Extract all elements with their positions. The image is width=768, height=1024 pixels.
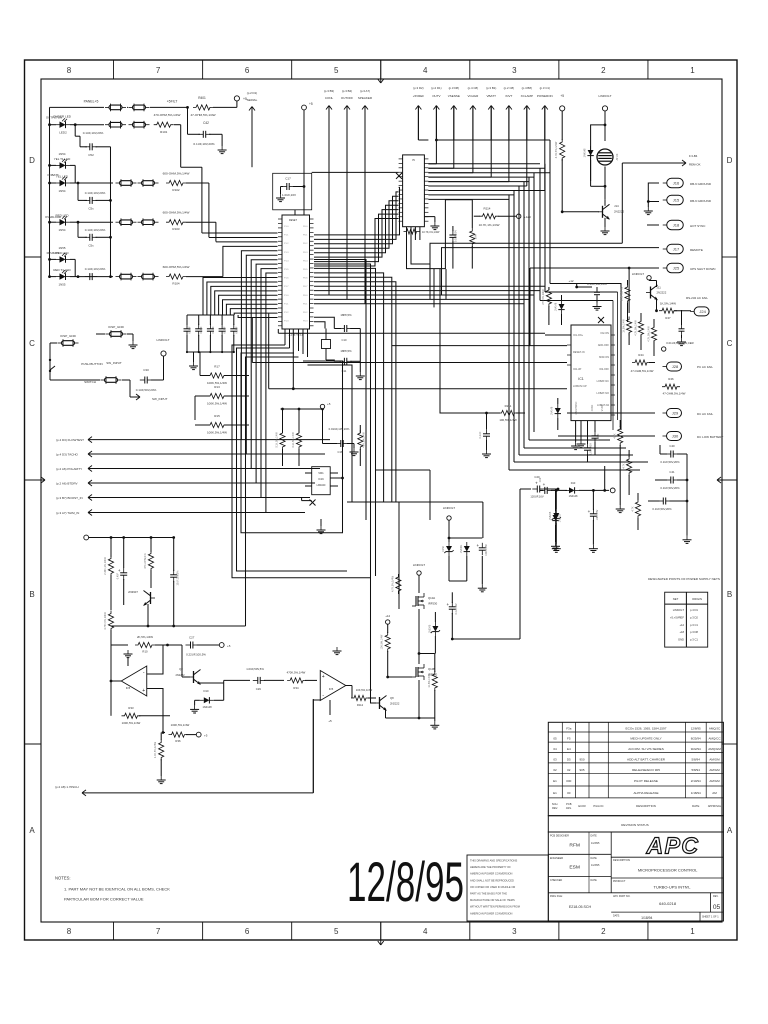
bus MCU left staircase to bypass caps: [203, 278, 278, 316]
svg-text:5/8/94: 5/8/94: [692, 768, 701, 772]
table power supply nets: [665, 592, 708, 647]
svg-text:1.0UF: 1.0UF: [597, 433, 600, 440]
svg-text:A: A: [727, 826, 733, 835]
svg-text:0.1UF,35V: 0.1UF,35V: [455, 603, 458, 615]
ferrite bead R104 a: [120, 274, 133, 279]
svg-text:p.3 D2: p.3 D2: [690, 615, 698, 619]
transistor Q8 2N2222: [379, 697, 381, 709]
svg-text:1/23/95: 1/23/95: [591, 842, 600, 845]
svg-text:10.7K,1%,1/4W: 10.7K,1%,1/4W: [422, 231, 440, 234]
svg-text:(p.3 B3): (p.3 B3): [324, 89, 334, 93]
svg-text:AM/GM: AM/GM: [709, 757, 720, 761]
svg-text:600-OHM,5%,1/4W: 600-OHM,5%,1/4W: [163, 265, 190, 269]
svg-text:LINKFILT: LINKFILT: [413, 563, 425, 567]
svg-text:0.1UF,100,20%: 0.1UF,100,20%: [587, 282, 607, 286]
svg-text:R102: R102: [172, 188, 180, 192]
svg-text:D5: D5: [567, 757, 571, 761]
wire Q11 collector: [656, 281, 658, 288]
wire IC5A minus in: [147, 689, 163, 733]
date sheet cells: [611, 911, 723, 913]
diode D17 right: [553, 515, 559, 521]
diode D13 IC1: [559, 304, 565, 310]
svg-text:ORIGIN: ORIGIN: [692, 597, 702, 601]
svg-text:IO2-ON: IO2-ON: [600, 332, 609, 335]
svg-text:C: C: [29, 339, 35, 348]
svg-text:DATE:: DATE:: [613, 915, 620, 918]
svg-text:02: 02: [567, 768, 571, 772]
wire SW_INPUT arrow: [129, 380, 131, 397]
svg-text:REMOTE: REMOTE: [690, 248, 703, 252]
svg-text:1K,5%,1/4W: 1K,5%,1/4W: [623, 319, 626, 333]
svg-text:SWITCH: SWITCH: [84, 380, 96, 384]
svg-text:IC5: IC5: [329, 687, 334, 691]
svg-text:SW_INPUT: SW_INPUT: [152, 397, 168, 401]
svg-text:2.49K,1%,1/4W: 2.49K,1%,1/4W: [104, 557, 107, 575]
wire Q2 base: [182, 676, 190, 678]
svg-text:RELEASE/ECO 905: RELEASE/ECO 905: [632, 768, 660, 772]
sheet border outer frame: [25, 60, 738, 940]
terminal open y490: [610, 488, 615, 493]
wire right tall vertical: [519, 489, 521, 639]
svg-text:1N54: 1N54: [59, 152, 66, 156]
wire Q8 base long vertical: [371, 702, 377, 704]
svg-text:AT-03: AT-03: [615, 153, 619, 160]
wire long IO1 run: [278, 332, 545, 334]
svg-text:2N3907: 2N3907: [128, 590, 138, 594]
svg-text:1N5245: 1N5245: [429, 624, 432, 633]
wire cap to bus: [96, 236, 111, 238]
ferrite bead R102 b: [142, 181, 155, 186]
svg-text:0.1UF,50V,20%: 0.1UF,50V,20%: [136, 388, 157, 392]
svg-text:7: 7: [156, 66, 161, 75]
resistor R116 under U5: [404, 229, 420, 234]
resistor R61 pullup IC1: [546, 287, 551, 307]
ferrite bead SW: [105, 378, 118, 383]
svg-text:1.0UF,50V: 1.0UF,50V: [590, 443, 593, 455]
junction arrow bus: [435, 139, 438, 142]
svg-text:HEREIN ARE THE PROPERTY OF: HEREIN ARE THE PROPERTY OF: [470, 865, 511, 869]
wire buzzer bundle verticals: [604, 466, 606, 490]
svg-text:R104: R104: [172, 282, 180, 286]
svg-text:100,5%,1/4W: 100,5%,1/4W: [499, 418, 517, 422]
wire Q10B gate: [388, 676, 412, 678]
svg-text:C41: C41: [669, 470, 675, 474]
svg-text:DATE: DATE: [591, 857, 598, 860]
connector J18 HOT SYNC: [667, 220, 684, 230]
ground C18: [353, 444, 355, 449]
ground R column: [619, 505, 621, 509]
wire buzzer bottom: [604, 167, 606, 200]
svg-text:47-OHM,5%,1/4W: 47-OHM,5%,1/4W: [631, 369, 654, 373]
svg-text:03: 03: [553, 757, 557, 761]
svg-text:SW_INPUT: SW_INPUT: [106, 361, 122, 365]
svg-text:9/22/94: 9/22/94: [691, 747, 701, 751]
svg-text:(p.2 A8) 1.70SCH: (p.2 A8) 1.70SCH: [55, 785, 79, 789]
svg-text:2N2222: 2N2222: [614, 210, 625, 214]
svg-text:P1.4: P1.4: [284, 260, 289, 262]
wire VR1 right to loopA: [330, 477, 342, 479]
title block revision table: [548, 722, 723, 815]
svg-text:6: 6: [245, 927, 250, 936]
ground C23: [592, 545, 594, 549]
wire C20 row y490: [540, 489, 543, 491]
wire cluster bottom rail: [448, 556, 450, 581]
wire long IO2-UP run: [252, 362, 489, 364]
svg-text:0.1UF,10V,20%: 0.1UF,10V,20%: [85, 267, 106, 271]
svg-text:(p.2 D1): (p.2 D1): [431, 86, 441, 90]
svg-text:0.1UF,10V,20%: 0.1UF,10V,20%: [193, 142, 214, 146]
svg-text:C42: C42: [203, 121, 209, 125]
svg-text:ICSP_GND: ICSP_GND: [108, 325, 125, 329]
resistor RV3 vertical: [651, 325, 656, 344]
junction led row: [77, 182, 80, 185]
wire buzzer loop: [604, 111, 606, 125]
svg-text:600-OHM,5%,1/4W: 600-OHM,5%,1/4W: [163, 172, 190, 176]
input arrow TACHO: [88, 451, 92, 454]
svg-text:D10: D10: [204, 689, 209, 693]
svg-text:1N55: 1N55: [59, 283, 66, 287]
frame centering arrow bottom: [380, 922, 382, 945]
svg-text:120UF,16V: 120UF,16V: [530, 495, 544, 499]
capacitor C20b 120UF,16V: [544, 487, 546, 494]
capacitor C left column: [483, 433, 490, 435]
svg-text:MANUFACTURE OR SALE OF ITEMS: MANUFACTURE OR SALE OF ITEMS: [470, 898, 515, 902]
svg-text:APC PART NO.: APC PART NO.: [613, 895, 631, 898]
svg-text:R17: R17: [214, 365, 220, 369]
input arrow BOOST_IN: [88, 495, 92, 498]
zener D zleft: [555, 408, 561, 414]
svg-text:(p.2 C8): (p.2 C8): [504, 86, 514, 90]
svg-text:J25: J25: [673, 266, 680, 271]
svg-text:47-OHM,5%,1/4W: 47-OHM,5%,1/4W: [190, 113, 215, 117]
resistor R column a: [618, 426, 623, 446]
svg-text:PANEL+5: PANEL+5: [84, 100, 99, 104]
wire row exit right: [186, 276, 223, 278]
wire Q11 emitter: [656, 298, 658, 311]
svg-text:P0.0: P0.0: [303, 226, 308, 228]
svg-text:18PF,5%: 18PF,5%: [340, 349, 352, 353]
svg-text:R44: R44: [638, 353, 644, 357]
svg-text:CONL: CONL: [325, 96, 334, 100]
svg-text:E1: E1: [553, 791, 557, 795]
svg-text:R103: R103: [172, 227, 180, 231]
svg-text:4.7K,5%,1/4W: 4.7K,5%,1/4W: [554, 141, 558, 158]
svg-text:C: C: [727, 339, 733, 348]
microcontroller U1 X1-87C51: [282, 215, 310, 329]
svg-text:0.1UF: 0.1UF: [234, 326, 238, 333]
mosfet Q10A IRF530: [415, 596, 417, 606]
svg-text:ONDER LED: ONDER LED: [53, 114, 72, 118]
svg-text:LINKFILT: LINKFILT: [443, 506, 455, 510]
wire Q14 collector: [604, 200, 606, 206]
svg-text:+12V: +12V: [524, 215, 531, 219]
input arrow POLARITY: [88, 466, 92, 469]
svg-text:2N2222: 2N2222: [175, 673, 185, 677]
svg-text:LOBAT-NC: LOBAT-NC: [597, 380, 610, 383]
wire BOOST_IN extension: [251, 497, 301, 499]
bus U5 to right bundle: [428, 163, 540, 165]
svg-text:4.7K: 4.7K: [632, 506, 635, 511]
svg-text:DATE: DATE: [692, 804, 699, 808]
disclaimer box: [467, 855, 548, 921]
svg-text:IO2-UP: IO2-UP: [573, 368, 582, 371]
svg-text:p.3 C1: p.3 C1: [690, 623, 698, 627]
ferrite bead R103 b: [142, 220, 155, 225]
svg-text:0.1K,5%,1/4W: 0.1K,5%,1/4W: [292, 432, 295, 448]
wire Q1 emitter down: [147, 604, 149, 626]
bus U5 loop stubs down: [433, 269, 435, 307]
ground flag IC5A: [127, 658, 129, 666]
svg-text:8: 8: [67, 66, 72, 75]
svg-text:R211: R211: [505, 404, 512, 408]
svg-text:SERIAL: SERIAL: [247, 98, 258, 102]
svg-text:4.7K,5%,1/4W: 4.7K,5%,1/4W: [648, 326, 651, 342]
svg-text:J24: J24: [699, 309, 706, 314]
terminal +5 C27: [219, 643, 224, 648]
svg-text:REV.: REV.: [552, 806, 558, 810]
svg-text:THIS DRAWING AND SPECIFICATION: THIS DRAWING AND SPECIFICATIONS: [470, 859, 518, 863]
svg-text:ALPHA RELEASE: ALPHA RELEASE: [633, 791, 658, 795]
svg-text:LINKFILT: LINKFILT: [632, 272, 644, 276]
svg-text:AMERICAN POWER CONVERSION: AMERICAN POWER CONVERSION: [470, 872, 512, 876]
svg-text:+: +: [535, 481, 538, 486]
connector J24 RS-232 AC FAIL: [694, 307, 709, 316]
svg-text:p.3 C1: p.3 C1: [690, 638, 698, 642]
svg-text:+12: +12: [568, 279, 573, 283]
wire led pair join: [70, 258, 75, 260]
svg-text:NOR-ON: NOR-ON: [599, 356, 609, 359]
connector J25 UPS SHUT DOWN: [667, 263, 684, 273]
capacitor C52 0.1UF,10V,20%: [74, 125, 76, 137]
terminal +5 analog rail: [84, 535, 89, 540]
svg-text:R36: R36: [175, 739, 181, 743]
svg-text:(p.4 B8): (p.4 B8): [522, 86, 532, 90]
svg-text:(p.2 A6) POLARITY: (p.2 A6) POLARITY: [56, 467, 82, 471]
svg-text:8: 8: [67, 927, 72, 936]
bus MCU fan L3: [241, 353, 343, 533]
svg-text:1/18/94: 1/18/94: [691, 791, 701, 795]
svg-text:ICSP_GND: ICSP_GND: [60, 334, 77, 338]
svg-text:DB-9 GROUND: DB-9 GROUND: [690, 199, 712, 203]
wire row y626: [111, 625, 246, 627]
svg-text:0.1K,5%,1/4W: 0.1K,5%,1/4W: [276, 432, 279, 448]
svg-text:OUTOFF: OUTOFF: [341, 96, 353, 100]
svg-text:1.0UF,50V,5%: 1.0UF,50V,5%: [246, 667, 264, 671]
resistor R73 vertical: [434, 654, 436, 673]
resistor R2 47K vertical: [150, 538, 152, 553]
svg-text:p.3 D8: p.3 D8: [690, 630, 698, 634]
svg-text:C5x: C5x: [88, 243, 94, 247]
wire gate loop feed: [347, 501, 352, 503]
wire J17 run: [442, 248, 660, 295]
svg-text:2: 2: [601, 927, 606, 936]
svg-text:2N2222: 2N2222: [390, 702, 400, 706]
svg-text:(p.3 B4): (p.3 B4): [342, 89, 352, 93]
svg-text:ASS.: ASS.: [566, 806, 572, 810]
zone band column dividers top: [113, 60, 115, 79]
svg-text:04: 04: [553, 747, 557, 751]
svg-text:IRF530: IRF530: [428, 602, 438, 606]
svg-text:AMQ/GM: AMQ/GM: [708, 747, 721, 751]
ferrite bead R102 a: [120, 181, 133, 186]
svg-text:IO2-OFF: IO2-OFF: [599, 368, 609, 371]
zener D18: [553, 513, 559, 519]
svg-text:IC16: IC16: [318, 477, 324, 481]
wire R36 row: [162, 731, 165, 734]
svg-text:YEL T1 LED: YEL T1 LED: [54, 157, 71, 161]
revision status band: [548, 816, 723, 832]
frame centering arrow right: [717, 479, 737, 481]
svg-text:P1.7: P1.7: [284, 286, 289, 288]
svg-text:J15: J15: [673, 198, 680, 203]
zone row tick left B/A: [25, 743, 42, 745]
svg-text:AND SHALL NOT BE REPRODUCED: AND SHALL NOT BE REPRODUCED: [470, 878, 514, 882]
supervisor IC1: [571, 325, 611, 421]
svg-text:ACCOM. SU V/S SERIES: ACCOM. SU V/S SERIES: [628, 747, 664, 751]
svg-text:470K,5%,1/4W: 470K,5%,1/4W: [287, 670, 306, 674]
terminal +5 MCU vcc: [302, 105, 307, 110]
ground IC1 bypass: [596, 303, 598, 307]
ferrite bead ICSP2: [62, 341, 75, 346]
svg-text:C10: C10: [342, 338, 347, 342]
svg-text:IC5: IC5: [126, 686, 131, 690]
svg-text:E1: E1: [553, 779, 557, 783]
svg-text:ENGINEER: ENGINEER: [550, 857, 563, 860]
svg-text:950: 950: [579, 757, 584, 761]
svg-text:LINKFILT: LINKFILT: [673, 608, 685, 612]
resistor R114 10.7K,1%,1/4W: [474, 215, 480, 217]
bus MCU fan L4: [246, 357, 299, 626]
capacitor C17 1.0UF,16V: [273, 173, 312, 210]
connector J15 DB-9 GROUND: [667, 195, 684, 205]
wire analog +5 rail: [89, 537, 174, 539]
resistor R70 4.7K vertical: [396, 574, 401, 594]
svg-text:ECOs 1526, 1565, 1584,1597: ECOs 1526, 1565, 1584,1597: [626, 727, 667, 731]
svg-text:+12: +12: [385, 614, 390, 618]
description cell: [611, 856, 723, 858]
LED DS2 ONDER: [50, 124, 57, 126]
title block lower frame: [548, 832, 723, 921]
bus MCU fan L1: [232, 345, 371, 578]
svg-text:100UF,35V: 100UF,35V: [485, 544, 488, 556]
svg-text:640-0218: 640-0218: [659, 901, 677, 906]
off-page arrow 1.70SCH: [82, 790, 86, 793]
svg-text:DESCRIPTION: DESCRIPTION: [636, 804, 656, 808]
svg-text:R114: R114: [484, 207, 491, 211]
svg-text:MECH UPDATE ONLY: MECH UPDATE ONLY: [630, 737, 661, 741]
svg-text:PART AS THE BASIS FOR THE: PART AS THE BASIS FOR THE: [470, 892, 507, 896]
svg-text:1: 1: [690, 66, 695, 75]
svg-text:+12: +12: [679, 623, 684, 627]
ferrite bead row2 b: [133, 122, 146, 127]
ground D18: [555, 545, 557, 549]
svg-text:0.22UF,100,5%: 0.22UF,100,5%: [186, 652, 206, 656]
svg-text:1N4001: 1N4001: [460, 544, 463, 553]
resistor R38 vertical: [160, 733, 162, 741]
bus bundle right turns to IC1 column: [550, 284, 621, 431]
wire IC1 left pins: [545, 334, 571, 336]
wire Q2 collector right: [200, 682, 224, 684]
wire row exit right: [186, 221, 216, 223]
svg-text:47K-OHM,1%: 47K-OHM,1%: [144, 553, 147, 569]
input arrow BTDRV: [88, 480, 92, 483]
svg-text:P1.3: P1.3: [284, 321, 289, 323]
svg-text:1N4148: 1N4148: [202, 705, 212, 709]
svg-text:VSENSE: VSENSE: [448, 94, 460, 98]
diode D16 cluster: [464, 546, 470, 552]
svg-text:1.0UF,16V: 1.0UF,16V: [282, 193, 296, 197]
wire y645 row: [111, 644, 128, 646]
svg-text:R112: R112: [357, 703, 364, 707]
svg-text:APPROVAL: APPROVAL: [708, 805, 722, 808]
wire row2 to bead: [70, 124, 75, 126]
capacitor 0.1UF row: [77, 222, 79, 237]
svg-text:RED LED: RED LED: [55, 214, 69, 218]
junction row2 bus: [48, 123, 51, 126]
svg-text:0.1UF: 0.1UF: [199, 326, 203, 333]
connector J30 DC LOW BATTERY: [667, 432, 682, 441]
svg-text:10K,5%,1/4W: 10K,5%,1/4W: [381, 634, 384, 649]
svg-text:0.1UF,10V,20%: 0.1UF,10V,20%: [85, 191, 106, 195]
svg-text:RS-232 AC FAIL: RS-232 AC FAIL: [686, 296, 708, 300]
svg-text:4.75K,5%,1/4W: 4.75K,5%,1/4W: [104, 612, 107, 630]
wire IC1 gnd stub: [575, 421, 577, 442]
ferrite bead R103 a: [120, 220, 133, 225]
svg-text:0.1UF,50V: 0.1UF,50V: [454, 230, 458, 242]
svg-text:10UF,25V: 10UF,25V: [596, 509, 599, 520]
svg-text:AM: AM: [712, 791, 717, 795]
svg-text:0.1UF,50V,20%: 0.1UF,50V,20%: [660, 486, 680, 490]
svg-text:P0.3: P0.3: [303, 321, 308, 323]
capacitor bypass C64: [233, 315, 235, 325]
wire Q14 emitter ground: [604, 218, 606, 227]
svg-text:J14: J14: [614, 204, 619, 208]
svg-text:R101: R101: [160, 130, 168, 134]
svg-text:+5,+5VREF: +5,+5VREF: [670, 615, 684, 619]
svg-text:OUTV: OUTV: [432, 94, 440, 98]
svg-text:P0.7: P0.7: [303, 286, 308, 288]
svg-text:0.1UF,50V,20%: 0.1UF,50V,20%: [660, 460, 680, 464]
svg-text:DATE: DATE: [591, 835, 598, 838]
svg-text:3: 3: [512, 927, 517, 936]
wire R13 left vertical: [195, 395, 200, 397]
svg-text:IC1: IC1: [578, 377, 584, 381]
svg-text:PC AC FAIL: PC AC FAIL: [697, 365, 713, 369]
resistor R1 2.49K vertical: [110, 538, 112, 558]
wire input run: [88, 482, 315, 484]
svg-text:YEL LED: YEL LED: [56, 175, 69, 179]
diode D12 buzzer: [588, 150, 594, 156]
svg-text:R47: R47: [665, 316, 671, 320]
junction led row: [77, 221, 80, 224]
svg-text:LINKFILT: LINKFILT: [156, 338, 169, 342]
bus mid extra horizontals: [376, 469, 431, 471]
wire cap row bottom rail: [187, 351, 234, 353]
svg-text:ESM: ESM: [569, 865, 580, 871]
zone row tick right B/A: [722, 743, 737, 745]
wire IC5A feedback: [147, 645, 163, 674]
svg-text:C18: C18: [338, 450, 343, 454]
svg-text:4.7K: 4.7K: [614, 433, 617, 438]
svg-text:Q2: Q2: [179, 667, 183, 671]
regulator VR1: [312, 467, 331, 495]
svg-text:+18: +18: [679, 630, 684, 634]
input arrow FLOWTEST: [88, 437, 92, 440]
capacitor C37 0.01UF,50V,10%,CER: [681, 310, 683, 325]
svg-text:3: 3: [512, 66, 517, 75]
ground bottom rail: [434, 718, 436, 721]
ground ICSP: [132, 341, 134, 345]
